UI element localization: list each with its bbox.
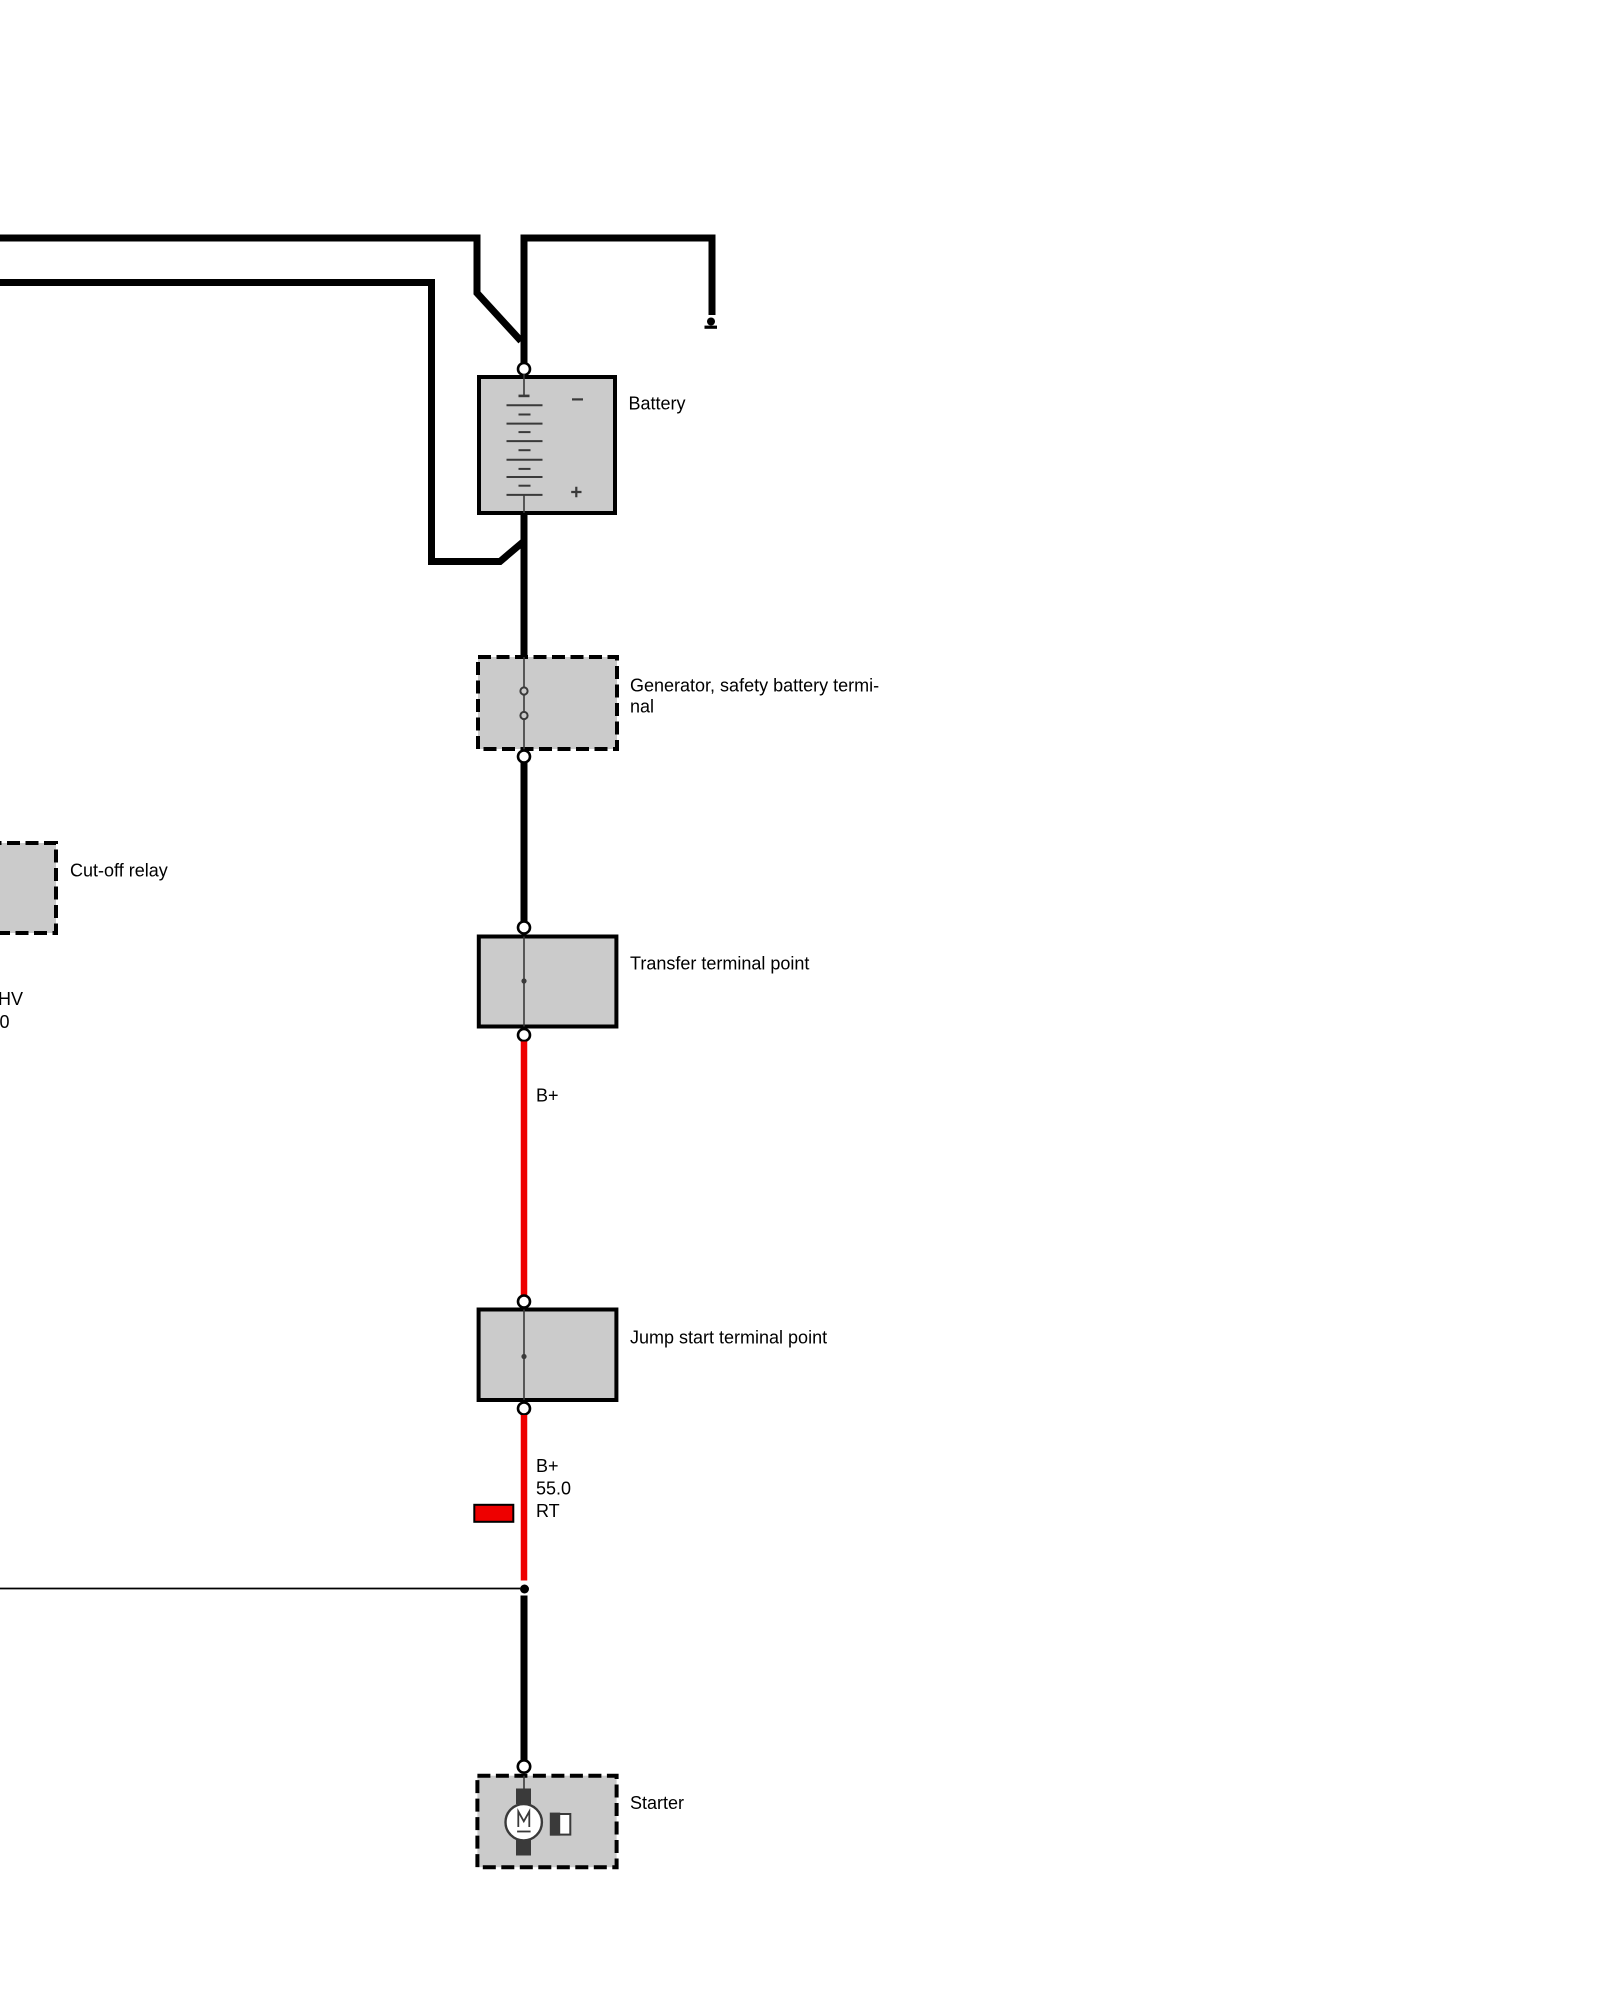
- svg-text:Transfer terminal point: Transfer terminal point: [630, 954, 809, 974]
- starter internal lead: [523, 1776, 525, 1789]
- wire: battery negative riser and top-right branch: [524, 238, 712, 363]
- jump start internal pin dot: [521, 1354, 526, 1359]
- transfer terminal internal conductor: [523, 937, 525, 1027]
- ground terminal underline: [705, 326, 718, 329]
- generator internal pin circle 2: [520, 712, 527, 719]
- svg-text:nal: nal: [630, 697, 654, 717]
- svg-text:Cut-off relay: Cut-off relay: [70, 861, 168, 881]
- generator internal conductor: [523, 657, 525, 750]
- svg-text:RT: RT: [536, 1501, 560, 1521]
- wire: generator to transfer terminal point: [521, 763, 528, 923]
- battery cell symbol: [507, 374, 543, 513]
- battery plus polarity mark: [571, 487, 581, 498]
- svg-text:55.0: 55.0: [536, 1479, 571, 1499]
- starter box (dashed): [477, 1776, 616, 1868]
- wire: red B+ cable jump start to junction: [521, 1415, 528, 1581]
- transfer terminal point box: [479, 937, 617, 1027]
- node: transfer terminal upper circle: [518, 922, 530, 934]
- svg-text:Starter: Starter: [630, 1793, 684, 1813]
- cut-off relay box (dashed, clipped at left edge): [0, 843, 56, 933]
- starter motor lower brush block: [516, 1840, 531, 1856]
- svg-text:Generator, safety battery term: Generator, safety battery termi-: [630, 676, 879, 696]
- battery box: [479, 377, 615, 513]
- starter motor circle: [506, 1804, 542, 1840]
- starter motor M underline: [517, 1831, 531, 1833]
- node: junction dot: [520, 1585, 529, 1594]
- wire: second thick feed from left edge to battery positive: [0, 283, 523, 562]
- wire: red B+ cable transfer to jump start: [521, 1042, 528, 1296]
- ground terminal dot at top right: [707, 318, 715, 326]
- red colour swatch: [474, 1505, 513, 1522]
- starter motor M glyph: [518, 1812, 529, 1828]
- starter motor upper brush block: [516, 1789, 531, 1805]
- node: battery negative terminal circle: [518, 363, 530, 375]
- svg-text:B+: B+: [536, 1086, 559, 1106]
- generator safety battery terminal box (dashed): [478, 657, 617, 749]
- wire: thin reference line from left edge to junction: [0, 1588, 520, 1590]
- jump start terminal point box: [479, 1310, 617, 1401]
- battery minus polarity mark: [572, 398, 583, 400]
- node: jump start upper terminal circle: [518, 1296, 530, 1308]
- wire: junction down to starter: [521, 1596, 528, 1761]
- svg-text:Jump start terminal point: Jump start terminal point: [630, 1328, 827, 1348]
- svg-text:HV: HV: [0, 989, 23, 1009]
- transfer terminal internal pin dot: [521, 978, 526, 983]
- node: starter terminal circle: [518, 1760, 530, 1772]
- jump start internal conductor: [523, 1310, 525, 1401]
- node: jump start lower terminal circle: [518, 1403, 530, 1415]
- svg-text:B+: B+: [536, 1456, 559, 1476]
- wire: battery positive down to generator safety terminal: [521, 515, 528, 657]
- svg-text:Battery: Battery: [629, 394, 686, 414]
- node: generator lower terminal circle: [518, 751, 530, 763]
- wire: thick feed from left edge to battery negative (upper horizontal): [0, 238, 521, 341]
- starter solenoid contact symbol: [551, 1814, 570, 1835]
- svg-text:0: 0: [0, 1012, 10, 1032]
- node: transfer terminal lower circle: [518, 1029, 530, 1041]
- generator internal pin circle 1: [520, 687, 527, 694]
